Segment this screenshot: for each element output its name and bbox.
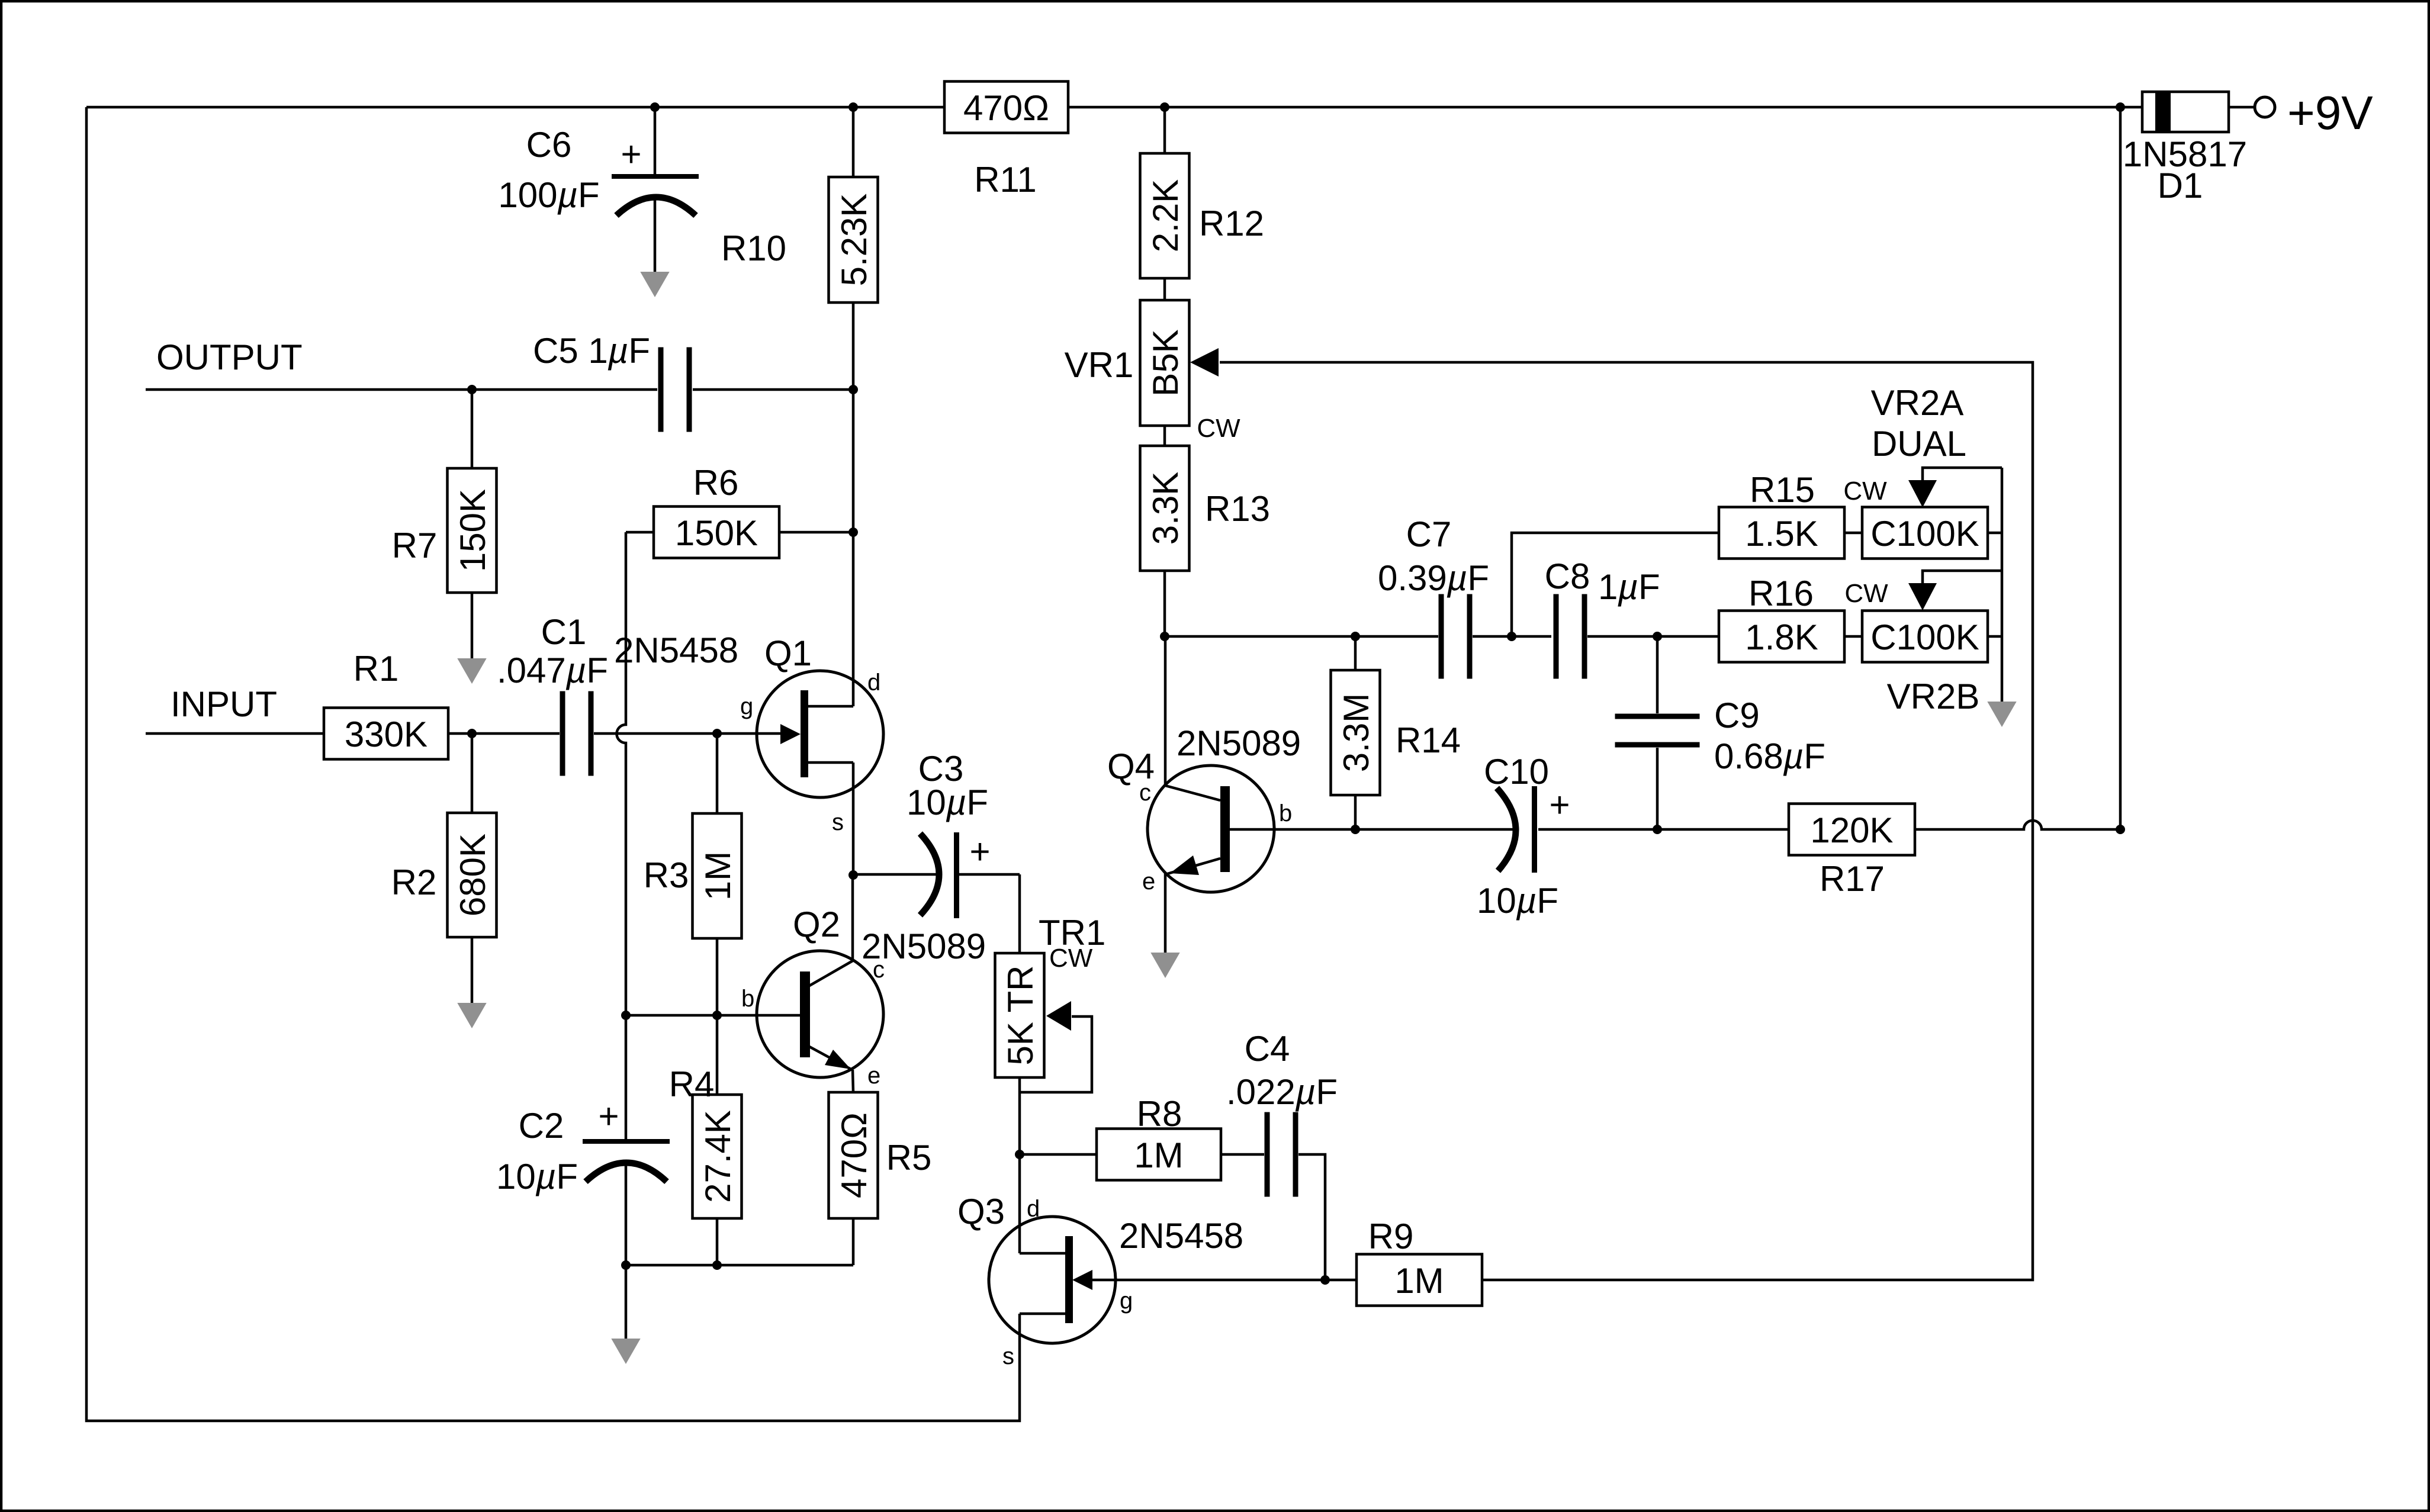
svg-text:R13: R13 bbox=[1205, 489, 1270, 529]
svg-text:+: + bbox=[969, 832, 990, 871]
node LFO rail at riser bbox=[1507, 632, 1516, 641]
svg-text:R11: R11 bbox=[974, 160, 1037, 200]
svg-text:c: c bbox=[1139, 780, 1151, 806]
svg-text:CW: CW bbox=[1197, 414, 1240, 443]
wire Q2 collector up to C3 junction bbox=[851, 875, 854, 961]
svg-text:150K: 150K bbox=[453, 489, 493, 572]
svg-text:C10: C10 bbox=[1484, 752, 1549, 792]
wire Q4 collector up to R13 junction bbox=[1164, 636, 1167, 785]
wiper arrow VR1 bbox=[1190, 348, 1219, 377]
svg-text:120K: 120K bbox=[1810, 810, 1893, 850]
svg-text:R14: R14 bbox=[1396, 720, 1461, 760]
svg-text:C9: C9 bbox=[1714, 696, 1760, 735]
node base rail at C2 bbox=[621, 1011, 631, 1020]
wire R16 to VR2B bbox=[1844, 635, 1862, 638]
wire Q3 drain from R8 junction bbox=[1018, 1154, 1021, 1253]
resistor R15 1.5K bbox=[1719, 507, 1844, 559]
svg-text:s: s bbox=[832, 809, 844, 835]
svg-text:2N5458: 2N5458 bbox=[614, 630, 738, 670]
wire OUTPUT line bbox=[146, 388, 657, 391]
wire R8 left lead bbox=[1020, 1153, 1097, 1156]
svg-text:1M: 1M bbox=[1394, 1261, 1444, 1301]
svg-text:1M: 1M bbox=[1134, 1135, 1183, 1175]
svg-text:R17: R17 bbox=[1820, 859, 1885, 899]
resistor R12 2.2K bbox=[1140, 153, 1190, 278]
ground arrow below VR2 bus bbox=[1987, 702, 2016, 727]
svg-text:Q2: Q2 bbox=[793, 905, 840, 944]
capacitor C10 10uF polarized bbox=[1497, 788, 1516, 871]
svg-text:3.3K: 3.3K bbox=[1146, 472, 1185, 545]
svg-text:b: b bbox=[741, 986, 754, 1012]
svg-text:g: g bbox=[740, 693, 753, 719]
resistor R9 1M bbox=[1357, 1254, 1482, 1306]
node R17 right bbox=[2116, 825, 2125, 834]
svg-text:150K: 150K bbox=[675, 513, 758, 553]
wire R2 branch bbox=[471, 734, 474, 813]
resistor R10 5.23K bbox=[829, 177, 878, 303]
wire R6 net vertical with hop over input wire bbox=[617, 532, 626, 1015]
svg-text:2N5458: 2N5458 bbox=[1119, 1216, 1243, 1256]
svg-text:R5: R5 bbox=[886, 1138, 932, 1178]
svg-text:+: + bbox=[598, 1096, 619, 1136]
svg-text:d: d bbox=[1027, 1196, 1040, 1222]
node Q4 base at R14 bbox=[1351, 825, 1360, 834]
svg-text:b: b bbox=[1279, 800, 1292, 826]
wire R10 bottom to C5 junction down to Q1 drain bbox=[852, 303, 855, 706]
svg-text:g: g bbox=[1120, 1288, 1133, 1314]
ground arrow below C6 bbox=[640, 272, 669, 297]
capacitor C9 0.68uF bbox=[1615, 714, 1700, 719]
potentiometer VR2A C100K bbox=[1862, 507, 1988, 559]
wire Q2 emitter to R5 bbox=[853, 1070, 853, 1092]
node gate at R3 bbox=[712, 729, 722, 738]
resistor R1 330K bbox=[324, 708, 448, 760]
node Q4 base at C9 bbox=[1653, 825, 1662, 834]
wire R1 to C1 bbox=[448, 732, 560, 735]
resistor R4 27.4K bbox=[693, 1095, 742, 1218]
ground arrow below C2 bbox=[611, 1339, 640, 1364]
resistor R13 3.3K bbox=[1140, 446, 1190, 571]
potentiometer VR1 B5K bbox=[1140, 300, 1190, 426]
wire top rail right segment to D1 bbox=[1068, 106, 2142, 109]
node ground rail at R4 bbox=[712, 1260, 722, 1270]
svg-text:3.3M: 3.3M bbox=[1336, 693, 1376, 772]
svg-text:OUTPUT: OUTPUT bbox=[156, 337, 303, 377]
wire TR1 wiper loop bbox=[1020, 1016, 1092, 1092]
resistor R11 470R in top rail bbox=[944, 82, 1068, 133]
svg-text:2N5089: 2N5089 bbox=[1177, 723, 1301, 763]
wire Q4 base rail to C10 bbox=[1230, 828, 1513, 831]
capacitor C7 0.39uF bbox=[1439, 594, 1444, 679]
node top rail at R12 bbox=[1160, 102, 1169, 112]
svg-text:470Ω: 470Ω bbox=[834, 1112, 874, 1198]
svg-text:10µF: 10µF bbox=[496, 1157, 578, 1196]
svg-text:CW: CW bbox=[1844, 579, 1888, 608]
svg-text:Q3: Q3 bbox=[957, 1192, 1005, 1231]
node output at R7 bbox=[467, 385, 477, 394]
wire C9 branch down bbox=[1656, 636, 1659, 713]
svg-text:R7: R7 bbox=[392, 526, 438, 565]
svg-text:10µF: 10µF bbox=[907, 783, 988, 822]
node LFO rail at R14 bbox=[1351, 632, 1360, 641]
wire R4 branch bbox=[716, 1015, 719, 1095]
svg-text:1.8K: 1.8K bbox=[1745, 617, 1818, 657]
wire +9V drop from D1 junction to R17 bbox=[2119, 107, 2122, 829]
svg-text:B5K: B5K bbox=[1146, 329, 1185, 396]
svg-text:+: + bbox=[1549, 785, 1570, 825]
node LFO rail at C9 bbox=[1653, 632, 1662, 641]
svg-text:C4: C4 bbox=[1245, 1029, 1290, 1069]
transistor Q1 2N5458 JFET bbox=[757, 671, 883, 797]
svg-text:C6: C6 bbox=[526, 125, 572, 165]
svg-text:CW: CW bbox=[1049, 944, 1093, 973]
svg-text:R15: R15 bbox=[1750, 470, 1815, 510]
capacitor C6 100uF polarized bbox=[654, 107, 657, 174]
svg-text:e: e bbox=[1142, 868, 1155, 895]
capacitor C5 1uF bbox=[658, 348, 664, 432]
svg-text:1M: 1M bbox=[698, 851, 738, 900]
transistor Q3 2N5458 JFET bbox=[989, 1217, 1116, 1343]
ground arrow below R7 bbox=[457, 658, 486, 684]
wire C3 to TR1 bbox=[1018, 874, 1021, 953]
node top rail at R10 bbox=[848, 102, 858, 112]
svg-text:CW: CW bbox=[1843, 477, 1887, 506]
svg-text:R3: R3 bbox=[644, 855, 689, 895]
node LFO rail at R13 bbox=[1160, 632, 1169, 641]
capacitor C2 10uF polarized bbox=[625, 1015, 628, 1139]
trimmer TR1 5K bbox=[995, 953, 1044, 1077]
svg-text:C100K: C100K bbox=[1870, 617, 1979, 657]
svg-text:C1: C1 bbox=[541, 612, 587, 652]
svg-text:R4: R4 bbox=[669, 1064, 715, 1104]
transistor Q2 2N5089 bbox=[757, 951, 883, 1077]
svg-text:10µF: 10µF bbox=[1477, 881, 1558, 921]
svg-text:0.68µF: 0.68µF bbox=[1714, 736, 1825, 776]
svg-text:DUAL: DUAL bbox=[1872, 424, 1966, 464]
svg-text:R1: R1 bbox=[353, 649, 399, 689]
node input at R2 bbox=[467, 729, 477, 738]
wire R12 branch from rail bbox=[1163, 107, 1166, 153]
svg-text:Q1: Q1 bbox=[764, 633, 812, 673]
svg-text:680K: 680K bbox=[453, 834, 493, 916]
wire Q4 emitter down bbox=[1164, 873, 1167, 954]
wire R8 to C4 bbox=[1221, 1153, 1264, 1156]
wire R6 right lead bbox=[779, 531, 853, 534]
svg-text:1µF: 1µF bbox=[1598, 567, 1660, 607]
capacitor C3 10uF polarized bbox=[920, 834, 939, 915]
svg-text:100µF: 100µF bbox=[498, 175, 599, 215]
svg-text:2.2K: 2.2K bbox=[1146, 179, 1185, 252]
node top rail at D1 bbox=[2116, 102, 2125, 112]
node top rail at C6 bbox=[650, 102, 660, 112]
wire ground rail under R4 R5 bbox=[626, 1264, 853, 1267]
resistor R17 120K bbox=[1789, 804, 1915, 855]
wiper arrow TR1 bbox=[1046, 1001, 1071, 1031]
svg-text:VR1: VR1 bbox=[1065, 345, 1134, 385]
svg-text:1.5K: 1.5K bbox=[1745, 514, 1818, 554]
wire INPUT line bbox=[146, 732, 324, 735]
svg-text:INPUT: INPUT bbox=[171, 684, 277, 724]
svg-text:C100K: C100K bbox=[1870, 514, 1979, 554]
svg-text:D1: D1 bbox=[2158, 166, 2203, 205]
capacitor C8 1uF bbox=[1554, 594, 1559, 679]
resistor R3 1M bbox=[693, 813, 742, 938]
svg-text:VR2B: VR2B bbox=[1887, 677, 1980, 716]
wire C4 down to gate rail bbox=[1298, 1154, 1325, 1280]
svg-text:+9V: +9V bbox=[2287, 86, 2373, 139]
wire left rail and bottom rail to Q3 source bbox=[86, 107, 1020, 1421]
wire Q2 base rail bbox=[626, 1014, 800, 1017]
wire R3 branch bbox=[716, 734, 719, 813]
resistor R6 150K bbox=[654, 507, 779, 558]
wire VR2 right bus bbox=[1988, 532, 2002, 535]
potentiometer VR2B C100K bbox=[1862, 611, 1988, 662]
svg-text:0.39µF: 0.39µF bbox=[1378, 558, 1489, 598]
svg-text:R9: R9 bbox=[1368, 1217, 1414, 1256]
wire C1 to Q1 gate bbox=[594, 732, 782, 735]
svg-text:C8: C8 bbox=[1545, 556, 1590, 596]
transistor Q4 2N5089 bbox=[1147, 765, 1274, 892]
svg-text:470Ω: 470Ω bbox=[963, 88, 1049, 128]
resistor R16 1.8K bbox=[1719, 611, 1844, 662]
node TR1 R8 Q3 drain bbox=[1015, 1150, 1024, 1159]
capacitor C1 .047uF bbox=[560, 691, 565, 776]
svg-text:C5 1µF: C5 1µF bbox=[533, 331, 650, 371]
svg-text:C2: C2 bbox=[519, 1106, 564, 1146]
wire C7 to C8 bbox=[1473, 635, 1551, 638]
wire R10 branch from top rail bbox=[852, 107, 855, 177]
diode D1 1N5817 bbox=[2142, 92, 2229, 132]
svg-text:R6: R6 bbox=[693, 463, 739, 503]
svg-text:.022µF: .022µF bbox=[1226, 1072, 1338, 1112]
svg-text:R12: R12 bbox=[1199, 204, 1264, 243]
wire R17 right with hop over feedback wire bbox=[1915, 821, 2121, 829]
resistor R14 3.3M bbox=[1331, 670, 1380, 795]
resistor R5 470R bbox=[829, 1092, 878, 1218]
node output at R10 bbox=[848, 385, 858, 394]
wire Q1 source to C3 junction to Q2 collector bbox=[852, 763, 855, 875]
svg-text:5.23K: 5.23K bbox=[834, 194, 874, 287]
wire R15 to VR2A bbox=[1844, 532, 1862, 535]
wire R9 right up to VR1 wiper bbox=[1220, 362, 2033, 1280]
ground arrow below R2 bbox=[457, 1003, 486, 1028]
svg-text:R10: R10 bbox=[721, 229, 786, 268]
svg-text:R2: R2 bbox=[391, 863, 437, 902]
resistor R2 680K bbox=[448, 813, 497, 937]
resistor R7 150K bbox=[448, 468, 497, 593]
capacitor C4 .022uF bbox=[1265, 1112, 1270, 1197]
svg-text:C7: C7 bbox=[1406, 514, 1452, 554]
wire D1 to +9V terminal bbox=[2229, 106, 2254, 109]
svg-text:s: s bbox=[1002, 1343, 1014, 1369]
wire R13 to LFO rail bbox=[1163, 571, 1166, 636]
wire Q3 gate rail to R9 bbox=[1091, 1279, 1357, 1282]
wire R14 top lead bbox=[1354, 636, 1357, 670]
node base rail at R3 bbox=[712, 1011, 722, 1020]
svg-text:5K TR: 5K TR bbox=[1001, 966, 1040, 1066]
node Q1 source C3 bbox=[848, 870, 858, 880]
svg-text:VR2A: VR2A bbox=[1871, 383, 1964, 423]
node ground rail at C2 bbox=[621, 1260, 631, 1270]
ground arrow below Q4 emitter bbox=[1150, 953, 1179, 978]
svg-text:d: d bbox=[867, 670, 880, 696]
terminal +9V circle bbox=[2255, 97, 2275, 117]
wire riser C7 junction up to R15 bbox=[1512, 533, 1719, 636]
wire R5 bottom bbox=[852, 1218, 855, 1265]
svg-text:+: + bbox=[621, 134, 641, 174]
wire +9V top rail left segment bbox=[86, 106, 944, 109]
node R6 right bbox=[848, 527, 858, 537]
resistor R8 1M bbox=[1097, 1129, 1221, 1180]
wire LFO rail y1075 bbox=[1165, 635, 1438, 638]
wire R7 branch bbox=[471, 390, 474, 468]
wire TR1 bottom to R8 junction bbox=[1018, 1077, 1021, 1154]
wire C8 to R16 bbox=[1587, 635, 1719, 638]
wire C9 to Q4 base rail bbox=[1656, 748, 1659, 829]
svg-text:330K: 330K bbox=[345, 715, 427, 754]
svg-text:R8: R8 bbox=[1137, 1094, 1182, 1134]
svg-text:.047µF: .047µF bbox=[497, 651, 608, 690]
node Q3 gate C4 R9 bbox=[1320, 1275, 1330, 1285]
wiper arrow VR2A with wire bbox=[1923, 468, 2002, 482]
wiper arrow VR2B with wire bbox=[1923, 571, 2002, 584]
svg-text:R16: R16 bbox=[1748, 574, 1814, 613]
wire C10 to 120K bbox=[1538, 828, 1789, 831]
svg-text:e: e bbox=[867, 1063, 880, 1089]
wire R6 left lead bbox=[626, 531, 654, 534]
svg-text:27.4K: 27.4K bbox=[698, 1110, 738, 1203]
wire R14 bottom lead bbox=[1354, 795, 1357, 829]
svg-text:c: c bbox=[873, 957, 885, 983]
